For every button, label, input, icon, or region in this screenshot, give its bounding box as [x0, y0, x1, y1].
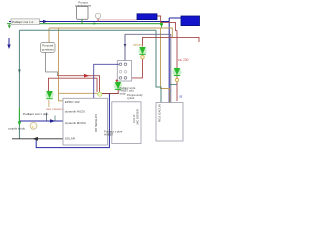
- wire tan branch to junction: [59, 92, 98, 94]
- lamp bulb bottom left: [30, 122, 37, 129]
- lamp circle under right LED: [175, 78, 178, 81]
- svg-text:R: R: [180, 95, 183, 99]
- component box B: [112, 102, 141, 144]
- wire maroon junction to relay LED: [102, 89, 118, 93]
- node green junction square: [160, 22, 163, 25]
- LED D2 green: [138, 47, 146, 55]
- svg-text:zielony: zielony: [133, 43, 143, 47]
- wire blue drop between boxes: [36, 94, 109, 148]
- wire red stub sensor: [97, 19, 99, 22]
- svg-text:dynamik MODU: dynamik MODU: [65, 121, 86, 125]
- green arrow on teal vertical: [18, 108, 20, 123]
- svg-text:OB SERELOS: OB SERELOS: [94, 114, 98, 132]
- svg-text:za. 230: za. 230: [178, 58, 189, 62]
- lamp circle under LED2: [141, 56, 144, 59]
- wire teal bus: [19, 29, 156, 31]
- svg-text:dynamik HUZU: dynamik HUZU: [65, 110, 85, 114]
- svg-text:RO2 W: RO2 W: [132, 114, 136, 123]
- LED relay green below: [114, 81, 122, 89]
- component blue rect1: [137, 14, 157, 20]
- wire blue into relay: [94, 64, 119, 98]
- svg-text:RO2 GACUN: RO2 GACUN: [158, 104, 162, 122]
- component circle sensor top: [95, 13, 100, 18]
- wire green vertical right: [160, 24, 162, 28]
- svg-text:przelewowa: przelewowa: [75, 3, 91, 7]
- svg-text:SOLAR: SOLAR: [65, 137, 76, 141]
- svg-text:czujnik wody: czujnik wody: [8, 126, 26, 130]
- teal jumper below right LED: [169, 84, 176, 86]
- svg-text:EPRO 102: EPRO 102: [65, 100, 80, 104]
- blue arrow top left: [8, 38, 10, 46]
- teal arrowhead mid-left: [18, 70, 21, 74]
- svg-text:nad. czerwony: nad. czerwony: [46, 107, 65, 111]
- wire blue bottom left with arrow: [20, 120, 63, 122]
- component box C bottom right: [156, 103, 183, 142]
- red dot relay: [116, 80, 118, 82]
- wire red 1 with arrow to junction: [58, 76, 100, 92]
- wire red A from rect1: [157, 16, 177, 101]
- svg-text:przelewu: przelewu: [42, 47, 54, 51]
- wire black arrow line bottom left: [12, 138, 63, 140]
- green arrow tick on bus: [94, 22, 97, 24]
- component box A: [63, 98, 108, 145]
- svg-text:Podłącz coś z d.: Podłącz coś z d.: [12, 20, 34, 24]
- LED D-left green: [45, 91, 53, 99]
- node junction circle: [98, 92, 102, 96]
- label top-left on green bus: [11, 19, 40, 24]
- wire tan drop to button label: [48, 28, 50, 43]
- wire green bus: [7, 23, 162, 25]
- wire slate vertical right: [170, 34, 172, 103]
- svg-text:Podłącz coś z dep.: Podłącz coś z dep.: [23, 112, 49, 116]
- wire red C from rect2 to LED2 to relay: [143, 37, 200, 46]
- wire tan vertical mid: [59, 28, 64, 101]
- wire slate drop to relay with arrow: [124, 34, 126, 60]
- svg-text:wody: wody: [120, 91, 127, 95]
- wire blue link to rect2: [169, 17, 181, 19]
- wire green stub tank: [81, 19, 83, 23]
- relay pins: [119, 63, 122, 66]
- wire blue bus: [9, 21, 169, 23]
- leader line label to blue wire: [46, 113, 48, 121]
- wire blue vertical right: [168, 18, 170, 103]
- blue arrow on bus: [43, 20, 48, 23]
- wire red 2 from left LED: [49, 78, 98, 92]
- component tank top center: [77, 6, 89, 19]
- component blue rect2: [181, 16, 200, 26]
- component relay box: [117, 61, 131, 81]
- wire teal vertical right: [156, 30, 161, 103]
- LED D-right green: [173, 68, 182, 77]
- wire slate horizontal: [125, 33, 171, 35]
- wire tan bus: [49, 28, 172, 37]
- wire teal vertical left: [18, 30, 20, 139]
- component button label box: [41, 43, 56, 53]
- green tick under label: [8, 24, 10, 28]
- wire tan vertical right: [161, 28, 170, 103]
- svg-text:cyrkul.: cyrkul.: [127, 96, 135, 100]
- svg-text:HABET: HABET: [104, 132, 114, 136]
- wire gray from button: [46, 53, 58, 76]
- wire pink bus: [98, 19, 137, 21]
